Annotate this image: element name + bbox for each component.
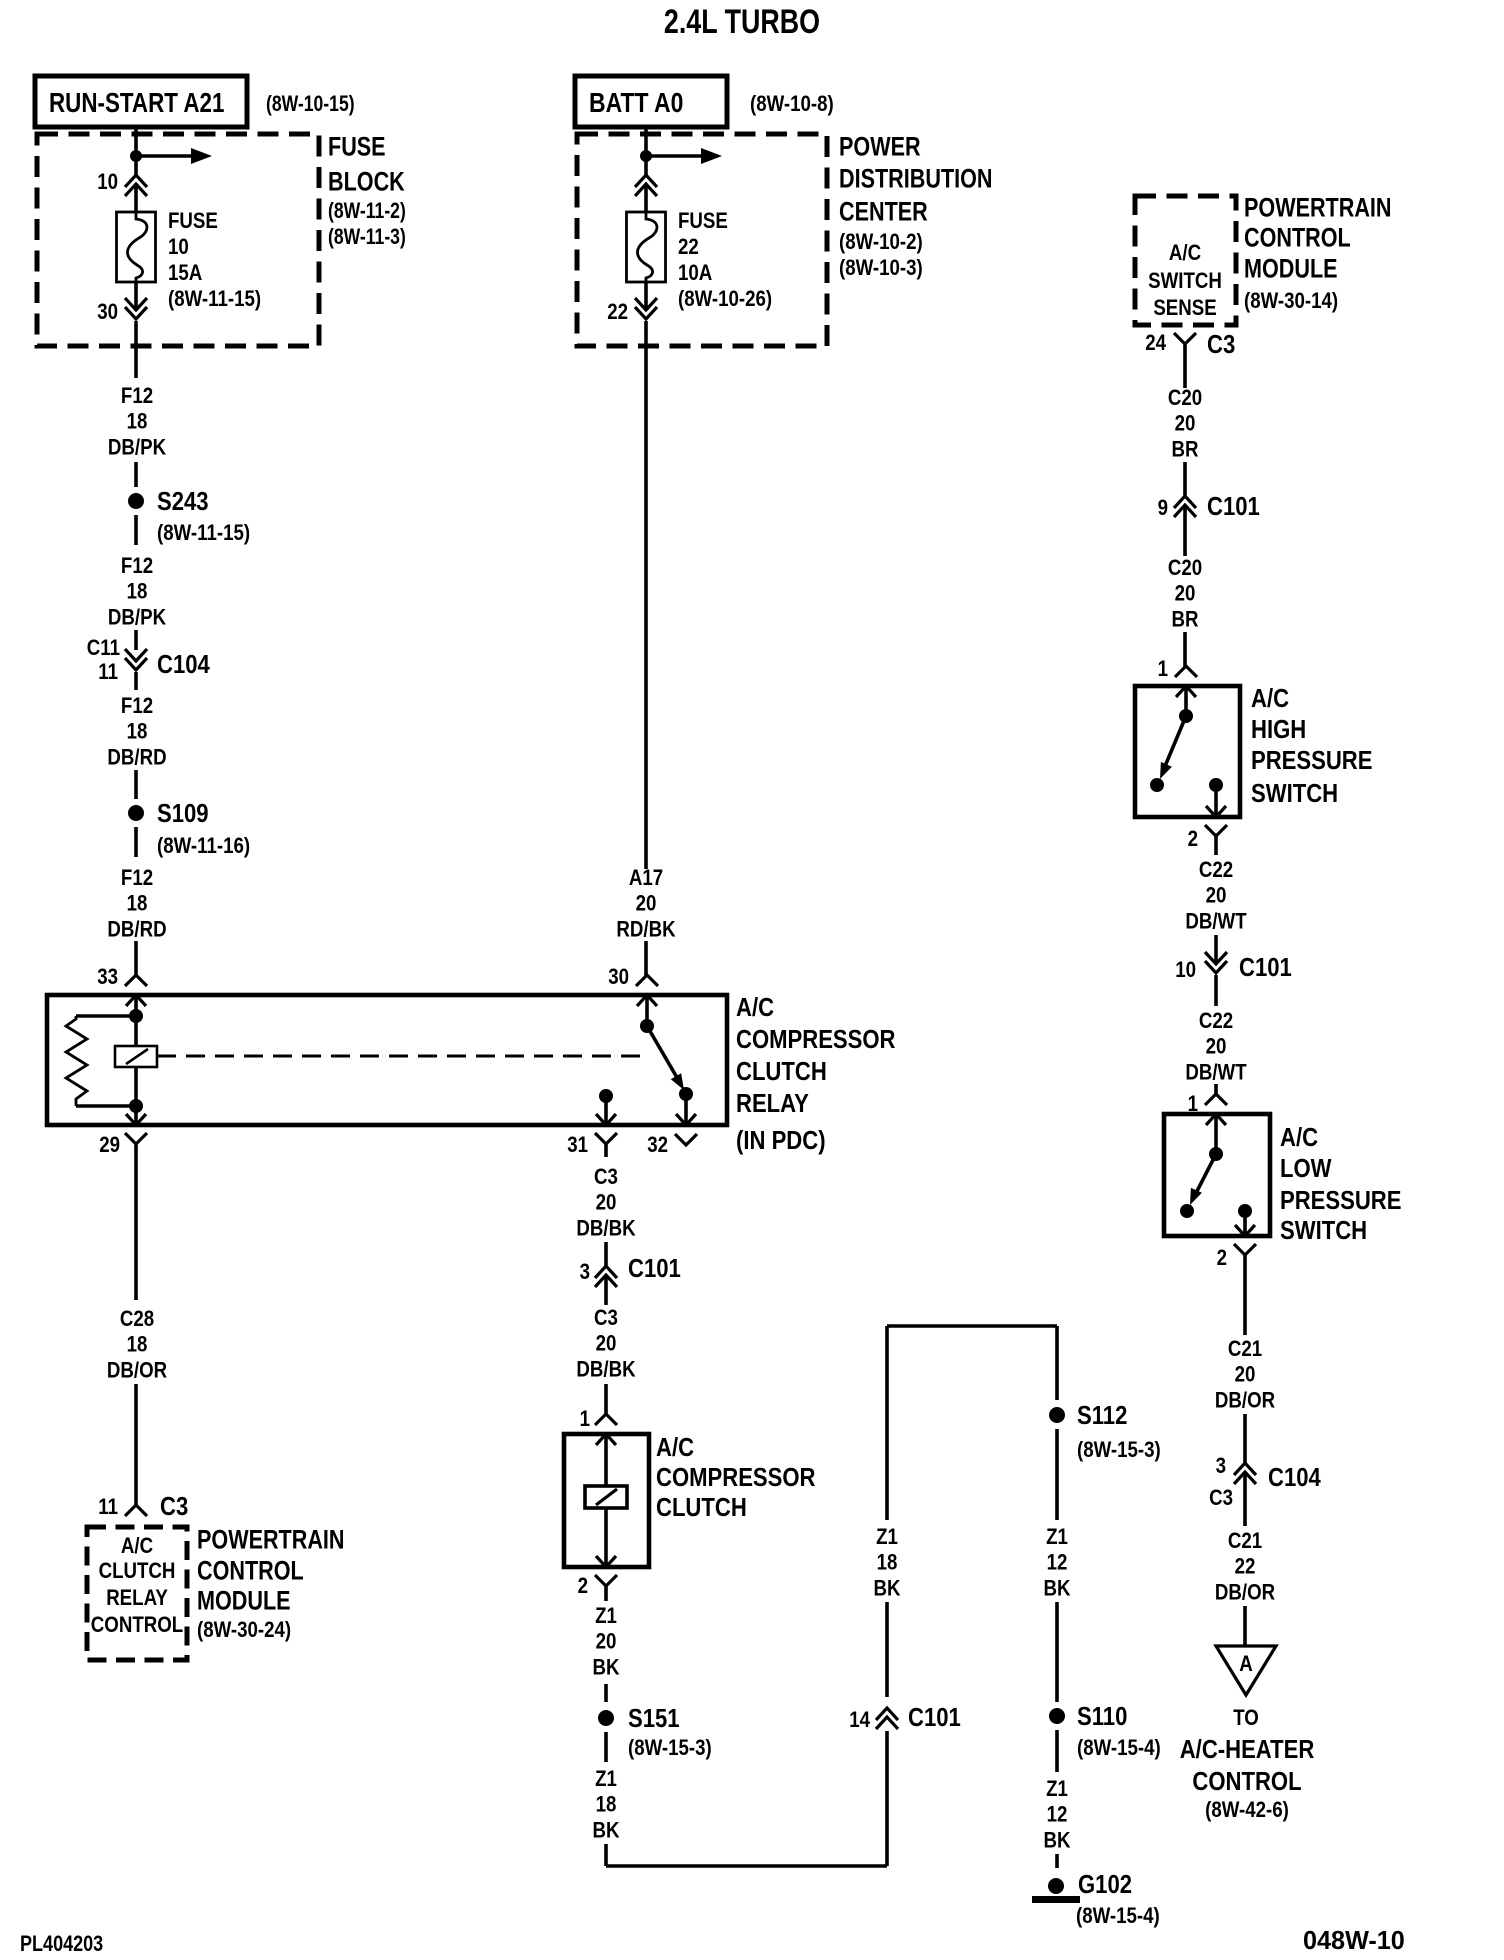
wire <box>1055 1429 1059 1520</box>
svg-text:C101: C101 <box>908 1704 961 1733</box>
relay coil resistor <box>76 1014 136 1018</box>
wire <box>1243 1275 1247 1335</box>
svg-text:20: 20 <box>636 892 657 916</box>
splice S243 <box>128 493 144 509</box>
svg-text:A/C: A/C <box>1251 685 1289 714</box>
svg-text:33: 33 <box>97 965 118 989</box>
svg-text:32: 32 <box>647 1133 668 1157</box>
svg-text:9: 9 <box>1158 496 1168 520</box>
svg-text:C3: C3 <box>1207 331 1235 360</box>
svg-text:(8W-11-15): (8W-11-15) <box>168 287 261 311</box>
svg-text:C3: C3 <box>1209 1486 1233 1510</box>
coil actuation dashed link <box>157 1055 640 1058</box>
svg-text:18: 18 <box>877 1551 898 1575</box>
wire <box>1214 1084 1218 1095</box>
power distribution center dashed box <box>577 134 827 346</box>
switch pin 2 <box>1206 806 1226 817</box>
svg-text:SENSE: SENSE <box>1153 296 1216 320</box>
svg-text:RUN-START A21: RUN-START A21 <box>49 88 224 119</box>
wire <box>1183 358 1187 388</box>
svg-text:(8W-15-3): (8W-15-3) <box>1077 1438 1161 1462</box>
switch internals <box>1214 1114 1218 1154</box>
svg-text:DB/OR: DB/OR <box>1215 1389 1275 1413</box>
svg-text:Z1: Z1 <box>1046 1777 1068 1801</box>
wire pin30 to switch <box>645 995 649 1030</box>
svg-text:(8W-10-15): (8W-10-15) <box>266 92 355 116</box>
svg-text:29: 29 <box>99 1133 120 1157</box>
wire pin31 <box>604 1096 608 1125</box>
svg-text:15A: 15A <box>168 261 203 285</box>
powertrain control module dashed box <box>1135 196 1236 325</box>
svg-text:RD/BK: RD/BK <box>616 918 675 942</box>
wire inside clutch <box>604 1434 608 1486</box>
svg-text:A: A <box>1239 1652 1253 1676</box>
svg-text:10A: 10A <box>678 261 713 285</box>
svg-text:RELAY: RELAY <box>736 1090 809 1119</box>
svg-text:CENTER: CENTER <box>839 197 928 227</box>
relay coil <box>115 1046 157 1067</box>
svg-text:30: 30 <box>608 965 629 989</box>
PCM pin 11 connector C3 <box>125 1505 147 1516</box>
svg-text:(8W-10-26): (8W-10-26) <box>678 287 772 311</box>
svg-text:C104: C104 <box>157 651 210 680</box>
svg-text:20: 20 <box>596 1630 617 1654</box>
svg-text:COMPRESSOR: COMPRESSOR <box>736 1026 896 1055</box>
clutch coil <box>585 1486 627 1508</box>
wire F22 to relay pin 30 <box>644 321 648 869</box>
svg-text:22: 22 <box>607 300 628 324</box>
junction node <box>129 1099 143 1113</box>
svg-text:18: 18 <box>127 1333 148 1357</box>
svg-text:A/C: A/C <box>1280 1124 1318 1153</box>
svg-text:C22: C22 <box>1199 1009 1233 1033</box>
fuse block dashed box <box>37 134 319 346</box>
svg-text:11: 11 <box>98 1495 118 1519</box>
svg-text:Z1: Z1 <box>1046 1525 1068 1549</box>
svg-text:20: 20 <box>1206 1035 1227 1059</box>
svg-text:DB/PK: DB/PK <box>108 606 166 630</box>
svg-text:048W-10: 048W-10 <box>1303 1927 1405 1955</box>
A/C compressor clutch relay box <box>47 995 727 1125</box>
wire coil to pin29 <box>134 1067 138 1125</box>
svg-text:BK: BK <box>1043 1577 1070 1601</box>
wire corner <box>606 1864 887 1868</box>
svg-text:(8W-11-2): (8W-11-2) <box>328 199 406 223</box>
svg-text:(8W-42-6): (8W-42-6) <box>1205 1798 1289 1822</box>
svg-text:A/C-HEATER: A/C-HEATER <box>1180 1736 1315 1765</box>
svg-text:FUSE: FUSE <box>328 132 386 162</box>
svg-text:(8W-15-4): (8W-15-4) <box>1077 1736 1161 1760</box>
svg-text:2: 2 <box>578 1574 588 1598</box>
svg-text:CONTROL: CONTROL <box>1244 223 1351 253</box>
svg-text:(8W-30-14): (8W-30-14) <box>1244 289 1338 313</box>
svg-text:(8W-15-3): (8W-15-3) <box>628 1736 712 1760</box>
svg-text:C21: C21 <box>1228 1337 1262 1361</box>
relay pin 31 <box>596 1114 616 1125</box>
svg-text:A/C: A/C <box>1169 241 1201 265</box>
svg-text:BK: BK <box>873 1577 900 1601</box>
wire <box>1243 1606 1247 1646</box>
svg-text:C11: C11 <box>87 636 120 660</box>
svg-text:C28: C28 <box>120 1307 154 1331</box>
junction node pin31 <box>599 1089 613 1103</box>
powertrain control module dashed box (clutch relay control) <box>87 1527 187 1660</box>
splice S109 <box>128 805 144 821</box>
svg-text:C20: C20 <box>1168 556 1202 580</box>
svg-text:10: 10 <box>1175 958 1196 982</box>
connector C104 pin 11 <box>134 630 138 650</box>
svg-text:14: 14 <box>849 1708 870 1732</box>
svg-text:DB/OR: DB/OR <box>1215 1581 1275 1605</box>
wire <box>604 1599 608 1601</box>
svg-text:2: 2 <box>1217 1246 1227 1270</box>
svg-text:SWITCH: SWITCH <box>1251 780 1338 809</box>
svg-text:11: 11 <box>98 660 118 684</box>
svg-text:Z1: Z1 <box>595 1604 617 1628</box>
wire pin33 to coil <box>134 995 138 1046</box>
wire RUN-START A21 to fuse F10 <box>134 127 138 175</box>
bus tag BATT A0 <box>575 76 727 127</box>
wire <box>604 1732 608 1762</box>
svg-text:DB/WT: DB/WT <box>1185 910 1247 934</box>
svg-text:A/C: A/C <box>736 994 774 1023</box>
svg-text:20: 20 <box>1175 582 1196 606</box>
wire <box>604 1684 608 1702</box>
svg-text:TO: TO <box>1233 1706 1259 1730</box>
svg-text:DB/BK: DB/BK <box>576 1217 635 1241</box>
A/C low pressure switch box <box>1164 1114 1270 1236</box>
svg-text:COMPRESSOR: COMPRESSOR <box>656 1464 816 1493</box>
svg-text:(8W-11-16): (8W-11-16) <box>157 834 250 858</box>
wire <box>644 941 648 977</box>
wire <box>1055 1854 1059 1868</box>
relay pin 30 <box>636 975 658 986</box>
svg-text:CONTROL: CONTROL <box>91 1613 183 1637</box>
svg-text:30: 30 <box>97 300 118 324</box>
relay pin 32 <box>676 1114 696 1125</box>
svg-text:F12: F12 <box>121 694 153 718</box>
svg-text:20: 20 <box>1206 884 1227 908</box>
wire <box>1243 1414 1247 1463</box>
svg-text:BATT A0: BATT A0 <box>589 88 683 119</box>
svg-text:S110: S110 <box>1077 1703 1127 1732</box>
svg-text:S109: S109 <box>157 800 209 829</box>
svg-text:C21: C21 <box>1228 1529 1262 1553</box>
svg-text:18: 18 <box>127 720 148 744</box>
svg-text:C3: C3 <box>594 1306 618 1330</box>
wire <box>134 1384 138 1505</box>
svg-text:2.4L TURBO: 2.4L TURBO <box>664 3 820 41</box>
switch internals <box>1184 686 1188 716</box>
wire <box>1214 935 1218 964</box>
svg-text:24: 24 <box>1145 331 1166 355</box>
svg-text:POWERTRAIN: POWERTRAIN <box>1244 193 1392 223</box>
fuse F10 15A <box>117 212 156 282</box>
svg-text:BR: BR <box>1171 438 1198 462</box>
svg-text:(8W-30-24): (8W-30-24) <box>197 1618 291 1642</box>
svg-text:MODULE: MODULE <box>1244 254 1338 284</box>
junction node <box>640 1019 654 1033</box>
svg-text:Z1: Z1 <box>876 1525 898 1549</box>
A/C compressor clutch box <box>564 1434 649 1567</box>
svg-text:BK: BK <box>1043 1829 1070 1853</box>
wire to clutch pin 1 <box>604 1384 608 1415</box>
wire <box>134 770 138 799</box>
svg-text:CLUTCH: CLUTCH <box>736 1058 827 1087</box>
svg-text:DB/PK: DB/PK <box>108 436 166 460</box>
svg-text:C104: C104 <box>1268 1464 1321 1493</box>
wire F10 to S243 <box>134 321 138 378</box>
splice S151 <box>598 1710 614 1726</box>
svg-text:1: 1 <box>580 1407 590 1431</box>
wire pin32 <box>684 1094 688 1125</box>
svg-text:(8W-11-3): (8W-11-3) <box>328 225 406 249</box>
PCM pin 24 connector C3 <box>1174 333 1196 344</box>
svg-text:DB/RD: DB/RD <box>107 746 166 770</box>
wire <box>1183 462 1187 496</box>
wire <box>1055 1602 1059 1702</box>
clutch pin 2 <box>596 1556 616 1567</box>
svg-text:POWERTRAIN: POWERTRAIN <box>197 1525 345 1555</box>
svg-text:(8W-10-3): (8W-10-3) <box>839 256 923 280</box>
wire <box>134 462 138 487</box>
svg-text:F12: F12 <box>121 866 153 890</box>
svg-text:18: 18 <box>127 892 148 916</box>
svg-text:PL404203: PL404203 <box>20 1932 103 1956</box>
svg-text:DB/BK: DB/BK <box>576 1358 635 1382</box>
svg-text:C101: C101 <box>1239 954 1292 983</box>
fuse F22 10A <box>627 212 666 282</box>
svg-text:10: 10 <box>97 170 118 194</box>
feed arrow <box>136 154 191 158</box>
wire pin29 to PCM <box>134 1157 138 1300</box>
pin 22 connector <box>644 282 648 310</box>
wire inside clutch <box>604 1508 608 1567</box>
svg-text:MODULE: MODULE <box>197 1586 291 1616</box>
wire corner to S112 branch <box>887 1324 1057 1328</box>
svg-text:FUSE: FUSE <box>168 209 218 233</box>
svg-text:CLUTCH: CLUTCH <box>656 1494 747 1523</box>
svg-text:2: 2 <box>1188 827 1198 851</box>
svg-text:CONTROL: CONTROL <box>1192 1768 1301 1797</box>
svg-text:PRESSURE: PRESSURE <box>1251 747 1372 776</box>
svg-text:DB/WT: DB/WT <box>1185 1061 1247 1085</box>
svg-text:18: 18 <box>127 410 148 434</box>
svg-text:S243: S243 <box>157 488 209 517</box>
svg-text:F12: F12 <box>121 554 153 578</box>
svg-text:31: 31 <box>567 1133 588 1157</box>
svg-text:(8W-10-2): (8W-10-2) <box>839 230 923 254</box>
svg-text:10: 10 <box>168 235 189 259</box>
svg-text:DB/RD: DB/RD <box>107 918 166 942</box>
svg-text:C101: C101 <box>1207 493 1260 522</box>
svg-text:A/C: A/C <box>121 1534 153 1558</box>
svg-text:CONTROL: CONTROL <box>197 1556 304 1586</box>
wire to ground bus <box>604 1844 608 1866</box>
svg-text:20: 20 <box>1175 412 1196 436</box>
wire <box>1183 632 1187 667</box>
svg-text:POWER: POWER <box>839 132 921 162</box>
svg-text:12: 12 <box>1047 1803 1068 1827</box>
svg-text:20: 20 <box>596 1191 617 1215</box>
wire <box>604 1242 608 1266</box>
svg-text:12: 12 <box>1047 1551 1068 1575</box>
svg-text:BK: BK <box>592 1656 619 1680</box>
connector <box>635 175 657 187</box>
svg-text:HIGH: HIGH <box>1251 716 1306 745</box>
svg-text:LOW: LOW <box>1280 1155 1332 1184</box>
A/C high pressure switch box <box>1135 686 1240 817</box>
junction node pin32 <box>679 1087 693 1101</box>
svg-text:3: 3 <box>1216 1454 1226 1478</box>
svg-text:F12: F12 <box>121 384 153 408</box>
ground G102 <box>1048 1878 1064 1894</box>
svg-text:(8W-15-4): (8W-15-4) <box>1076 1904 1160 1928</box>
svg-text:PRESSURE: PRESSURE <box>1280 1187 1401 1216</box>
svg-text:S112: S112 <box>1077 1402 1127 1431</box>
wire <box>1055 1730 1059 1772</box>
wire <box>885 1326 889 1520</box>
svg-text:22: 22 <box>1235 1555 1256 1579</box>
splice S110 <box>1049 1708 1065 1724</box>
svg-text:A/C: A/C <box>656 1434 694 1463</box>
svg-text:BR: BR <box>1171 608 1198 632</box>
feed arrow <box>646 154 701 158</box>
wire <box>134 515 138 545</box>
svg-text:20: 20 <box>596 1332 617 1356</box>
bus tag RUN-START A21 <box>35 76 247 127</box>
junction node <box>129 1009 143 1023</box>
off-page connector A <box>1216 1646 1276 1695</box>
svg-text:1: 1 <box>1158 657 1168 681</box>
svg-text:(8W-11-15): (8W-11-15) <box>157 521 250 545</box>
svg-text:FUSE: FUSE <box>678 209 728 233</box>
svg-text:SWITCH: SWITCH <box>1280 1217 1367 1246</box>
svg-text:G102: G102 <box>1078 1871 1132 1900</box>
svg-text:C22: C22 <box>1199 858 1233 882</box>
svg-text:(IN PDC): (IN PDC) <box>736 1127 826 1156</box>
svg-text:C3: C3 <box>160 1493 188 1522</box>
junction node <box>640 150 652 162</box>
svg-text:RELAY: RELAY <box>106 1586 168 1610</box>
svg-text:C3: C3 <box>594 1165 618 1189</box>
wire <box>134 827 138 857</box>
wire BATT A0 to fuse F22 <box>644 127 648 175</box>
svg-text:DB/OR: DB/OR <box>107 1359 167 1383</box>
svg-text:BK: BK <box>592 1819 619 1843</box>
switch pin 2 <box>1235 1225 1255 1236</box>
svg-text:DISTRIBUTION: DISTRIBUTION <box>839 164 993 194</box>
relay switch arm <box>647 1026 679 1081</box>
svg-text:CLUTCH: CLUTCH <box>99 1559 176 1583</box>
svg-text:C20: C20 <box>1168 386 1202 410</box>
svg-text:SWITCH: SWITCH <box>1148 269 1222 293</box>
svg-text:BLOCK: BLOCK <box>328 167 405 197</box>
svg-text:18: 18 <box>596 1793 617 1817</box>
pin 30 connector <box>134 282 138 310</box>
svg-text:Z1: Z1 <box>595 1767 617 1791</box>
svg-text:3: 3 <box>580 1260 590 1284</box>
svg-text:18: 18 <box>127 580 148 604</box>
svg-text:22: 22 <box>678 235 699 259</box>
svg-text:C101: C101 <box>628 1255 681 1284</box>
svg-text:20: 20 <box>1235 1363 1256 1387</box>
splice S112 <box>1049 1407 1065 1423</box>
junction node <box>130 150 142 162</box>
wire to relay pin 33 <box>134 941 138 977</box>
svg-text:S151: S151 <box>628 1705 680 1734</box>
svg-text:A17: A17 <box>629 866 663 890</box>
relay pin 29 <box>126 1114 146 1125</box>
wire <box>885 1602 889 1697</box>
svg-text:(8W-10-8): (8W-10-8) <box>750 92 834 116</box>
